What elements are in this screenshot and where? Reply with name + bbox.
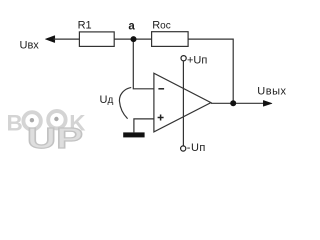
output wire from op-amp apex (211, 102, 264, 104)
wire non-inverting input to ground (134, 119, 154, 132)
positive supply terminal circle (181, 56, 186, 61)
svg-text:Uвх: Uвх (20, 40, 40, 52)
wire input arrow to R1 (54, 38, 80, 40)
svg-text:a: a (128, 21, 135, 33)
ground (bar) (123, 132, 144, 137)
svg-text:R1: R1 (78, 20, 92, 32)
op-amp U1 triangle (154, 73, 211, 132)
svg-text:-Uп: -Uп (187, 142, 206, 154)
svg-text:Uд: Uд (100, 94, 114, 106)
minus sign (inverting input) (158, 88, 164, 90)
output arrow (points right) (263, 100, 272, 106)
wire R1 to Roc through node a (114, 38, 151, 40)
plus sign (non-inverting input) (158, 117, 164, 119)
svg-text:UP: UP (27, 123, 83, 155)
svg-text:+Uп: +Uп (187, 55, 207, 67)
svg-text:Uвых: Uвых (257, 85, 286, 97)
svg-text:B: B (7, 110, 23, 135)
power rail wire through op-amp (182, 61, 184, 146)
svg-text:Roc: Roc (152, 20, 171, 32)
node a (junction dot) (131, 36, 137, 42)
Ud arc (differential voltage bracket) (119, 87, 131, 118)
feedback wire Roc to output node (188, 39, 233, 100)
output node (junction dot) (230, 100, 236, 106)
resistor R1 (79, 32, 114, 47)
negative supply terminal circle (181, 146, 186, 151)
resistor Roc (feedback) (152, 32, 189, 47)
watermark BOOK UP logo (7, 110, 87, 155)
input arrow (points left) (45, 36, 55, 43)
wire node a down to inverting input (133, 42, 153, 89)
